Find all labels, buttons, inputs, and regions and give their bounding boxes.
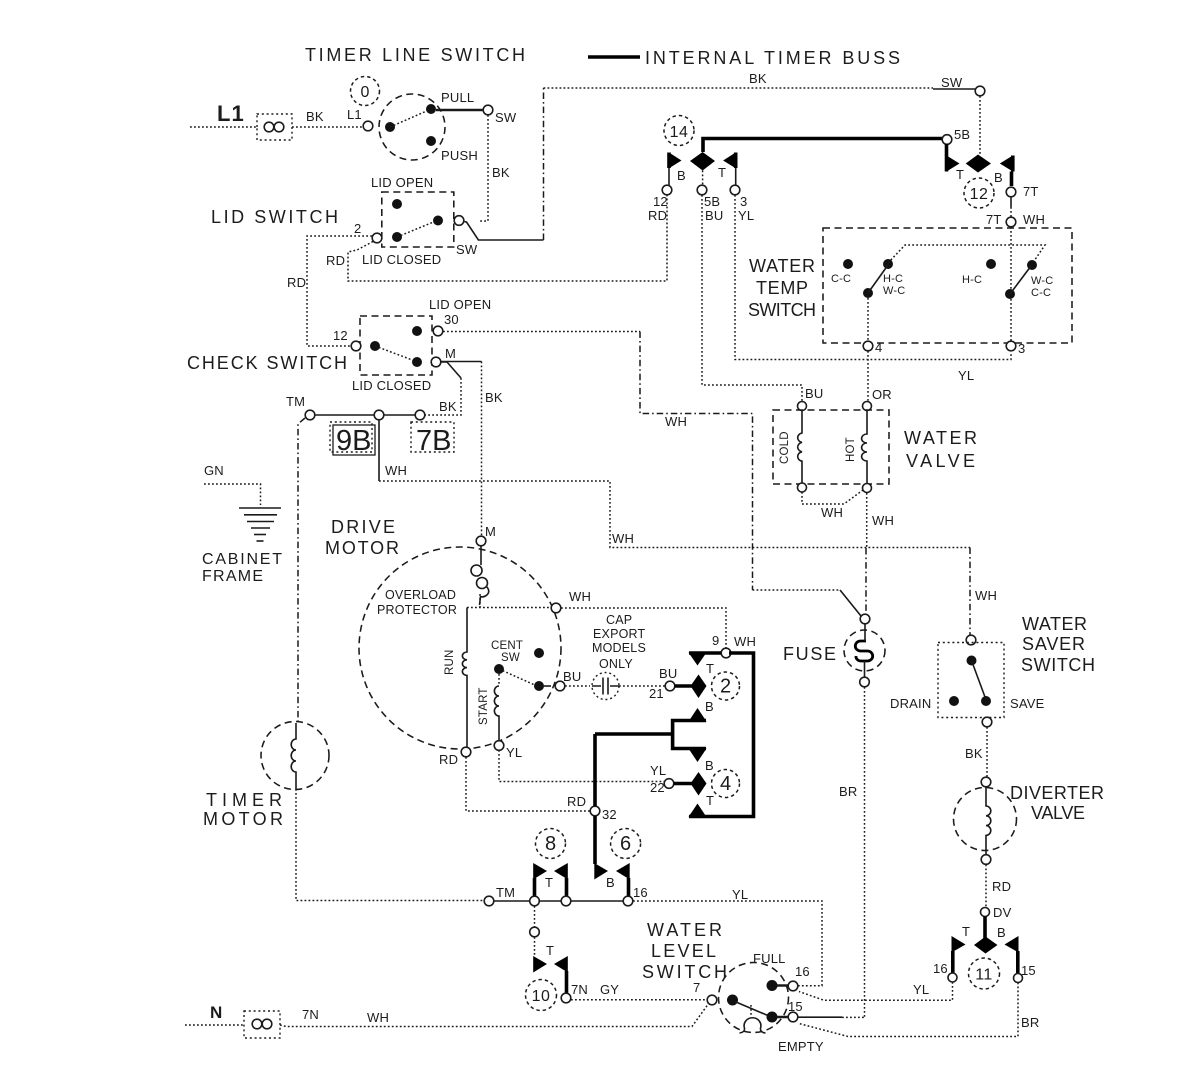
water saver switch outline — [938, 643, 1004, 718]
svg-text:WH: WH — [1023, 212, 1045, 227]
svg-text:SAVER: SAVER — [1022, 634, 1085, 654]
svg-text:SW: SW — [456, 242, 478, 257]
svg-text:W-C: W-C — [1031, 275, 1053, 287]
svg-text:B: B — [606, 875, 615, 890]
wire right pivot to terminal 3 — [1010, 299, 1012, 341]
svg-text:WH: WH — [821, 505, 843, 520]
cam 14 contact T triangle — [723, 153, 736, 169]
cam 2 diamond — [691, 675, 707, 699]
svg-text:WATER: WATER — [749, 256, 815, 276]
wire lower contact to BU node — [544, 685, 551, 687]
node cam11 16 — [948, 973, 957, 982]
svg-text:YL: YL — [506, 745, 522, 760]
wire BK bus riser — [543, 88, 545, 240]
svg-text:BU: BU — [563, 669, 581, 684]
svg-text:11: 11 — [975, 967, 993, 984]
wire 7T to connector — [1010, 197, 1012, 207]
timer motor outline — [261, 722, 329, 790]
node saver bottom — [982, 717, 992, 727]
svg-text:M: M — [445, 346, 456, 361]
contact lid open check — [412, 326, 422, 336]
water level switch outline — [719, 963, 789, 1033]
wire YL down to 22 — [499, 750, 664, 782]
svg-text:BK: BK — [439, 399, 457, 414]
svg-text:BR: BR — [1021, 1015, 1039, 1030]
drive motor outline — [359, 547, 561, 749]
wire capacitor to 21 — [619, 685, 665, 687]
wire cam8 right to 16 — [571, 900, 623, 902]
cam 11 diamond — [974, 937, 998, 954]
wire L1 lead — [190, 126, 257, 128]
svg-text:TM: TM — [496, 885, 515, 900]
node cam8 right — [561, 896, 571, 906]
coil HOT — [862, 411, 867, 484]
svg-text:YL: YL — [650, 763, 666, 778]
svg-text:YL: YL — [913, 982, 929, 997]
cam 11 contact B triangle — [1005, 936, 1019, 973]
svg-text:T: T — [718, 165, 726, 180]
svg-text:9B: 9B — [336, 425, 371, 457]
water valve outline — [773, 410, 889, 484]
svg-text:B: B — [705, 758, 714, 773]
svg-text:START: START — [478, 687, 490, 725]
svg-text:DIVERTER: DIVERTER — [1010, 783, 1104, 803]
wire overload to WH node — [467, 594, 551, 608]
wire junction to cam8 right node — [539, 900, 561, 902]
svg-text:GY: GY — [600, 982, 619, 997]
contact lid closed throw — [433, 216, 443, 226]
node terminal 16 — [623, 896, 633, 906]
WLS pressure dome — [740, 1018, 766, 1033]
node 7B — [415, 410, 425, 420]
cam 12 contact T triangle — [947, 156, 960, 172]
svg-text:LID CLOSED: LID CLOSED — [362, 252, 441, 267]
buss step cam2 B to cam4 B — [595, 721, 706, 749]
svg-text:FUSE: FUSE — [783, 644, 836, 664]
svg-text:7T: 7T — [1023, 184, 1039, 199]
svg-text:9: 9 — [712, 633, 719, 648]
svg-text:BK: BK — [306, 109, 324, 124]
svg-text:H-C: H-C — [883, 273, 903, 285]
temp switch left contact C-C — [843, 259, 853, 269]
svg-text:RD: RD — [648, 208, 667, 223]
wire BK down from SW to lid switch — [478, 115, 488, 221]
switch blade to PULL — [390, 110, 429, 127]
saver blade — [972, 661, 986, 698]
cam 11 contact T triangle — [952, 936, 966, 973]
wire SW down to cam 12 — [979, 96, 981, 155]
svg-text:N: N — [210, 1003, 223, 1022]
node terminal M — [431, 357, 441, 367]
diverter valve outline — [954, 788, 1017, 851]
svg-text:SW: SW — [501, 652, 520, 664]
node valve OR terminal — [863, 402, 872, 411]
svg-text:SW: SW — [941, 75, 963, 90]
node TM bottom — [484, 896, 494, 906]
contact SAVE — [981, 696, 991, 706]
svg-text:6: 6 — [620, 833, 631, 855]
node diverter bottom — [981, 855, 991, 865]
svg-text:L1: L1 — [217, 101, 245, 126]
lid switch outline — [382, 192, 454, 247]
svg-text:BK: BK — [965, 746, 983, 761]
wire left pivot to terminal 4 — [867, 298, 869, 341]
node motor BU terminal — [555, 681, 565, 691]
svg-text:WH: WH — [665, 414, 687, 429]
node SW — [483, 105, 493, 115]
node 7T — [1006, 187, 1016, 197]
connector box 9B — [330, 422, 375, 457]
node WLS pivot — [727, 995, 738, 1006]
timer cam circled 11 — [969, 958, 1000, 989]
cam 10 contact left triangle — [533, 956, 547, 973]
svg-text:WH: WH — [569, 589, 591, 604]
wire timer motor to TM node — [296, 789, 484, 901]
node junction cam8 left — [530, 896, 540, 906]
svg-text:C-C: C-C — [1031, 287, 1051, 299]
buss cam4 T loop to 9 — [689, 653, 754, 817]
node terminal 3 — [1006, 341, 1016, 351]
wire DV to cam 11 diamond — [983, 917, 987, 940]
svg-text:14: 14 — [670, 124, 689, 141]
svg-text:CHECK SWITCH: CHECK SWITCH — [187, 353, 347, 373]
node 5B right — [942, 135, 952, 145]
fuse outline — [844, 630, 885, 671]
svg-text:LID CLOSED: LID CLOSED — [352, 378, 431, 393]
overload protector heater — [480, 546, 482, 565]
wire lid SW to BK bus riser — [464, 222, 544, 241]
timer line switch outline — [379, 94, 445, 160]
svg-text:0: 0 — [361, 84, 370, 101]
wire EMPTY to 15 — [777, 1016, 788, 1019]
cam 12 diamond — [966, 155, 991, 173]
svg-text:EMPTY: EMPTY — [778, 1039, 824, 1054]
svg-text:C-C: C-C — [831, 273, 851, 285]
check switch outline — [360, 316, 432, 375]
cam 6 contact left triangle — [594, 863, 608, 880]
WLS pressure dome link — [750, 1005, 752, 1017]
svg-text:WH: WH — [734, 634, 756, 649]
svg-text:30: 30 — [444, 312, 459, 327]
svg-text:DRIVE: DRIVE — [331, 517, 395, 537]
svg-text:H-C: H-C — [962, 274, 982, 286]
svg-text:M: M — [485, 524, 496, 539]
svg-text:WH: WH — [975, 588, 997, 603]
wire FULL to 16 — [777, 984, 788, 987]
svg-text:LID OPEN: LID OPEN — [371, 175, 433, 190]
svg-text:B: B — [997, 925, 1006, 940]
node valve cold bottom — [798, 483, 807, 492]
wire TM to junction — [494, 900, 529, 902]
wire 16 YL to WLS full — [633, 901, 822, 986]
node switch common — [385, 122, 395, 132]
node SW lid — [454, 216, 464, 226]
node junction 9B — [374, 410, 384, 420]
wire net30 to fuse — [753, 589, 841, 591]
node terminal 21 — [665, 681, 675, 691]
svg-text:22: 22 — [650, 780, 665, 795]
contact lid open — [392, 199, 402, 209]
contact EMPTY — [767, 1012, 778, 1023]
timer cam circled 10 — [526, 980, 557, 1011]
svg-text:B: B — [994, 170, 1003, 185]
svg-text:T: T — [706, 793, 714, 808]
cam 6 contact right triangle — [616, 863, 630, 896]
node terminal 7N — [561, 993, 571, 1003]
svg-text:12: 12 — [333, 328, 348, 343]
svg-text:T: T — [545, 875, 553, 890]
svg-text:SWITCH: SWITCH — [748, 300, 816, 320]
svg-text:7N: 7N — [571, 982, 588, 997]
svg-text:SWITCH: SWITCH — [1021, 655, 1095, 675]
cam 12 buss stub — [945, 144, 949, 156]
svg-text:7B: 7B — [416, 425, 451, 457]
node check pivot — [370, 341, 380, 351]
cam 14 contact B triangle — [669, 153, 682, 169]
wire diverter RD down — [985, 865, 987, 908]
node valve hot bottom — [863, 484, 872, 493]
svg-text:COLD: COLD — [779, 431, 791, 464]
node terminal 2 — [372, 233, 382, 243]
node diverter top — [981, 777, 991, 787]
svg-text:T: T — [546, 943, 554, 958]
wire terminal 4 to OR node — [867, 351, 869, 401]
wire BK bus solid end — [933, 88, 975, 90]
wire WH bus down to saver — [969, 548, 971, 636]
node motor M terminal — [476, 536, 486, 546]
svg-text:MOTOR: MOTOR — [325, 538, 399, 558]
wire WH to bus — [379, 481, 970, 548]
timer cam circled 6 — [611, 829, 641, 859]
temp switch right blade — [1010, 266, 1031, 294]
svg-text:CAP: CAP — [606, 613, 632, 627]
svg-text:3: 3 — [1018, 341, 1025, 356]
timer cam circled 14 — [664, 116, 694, 146]
wire 21 to cam 2 diamond — [675, 684, 693, 688]
svg-text:15: 15 — [788, 999, 803, 1014]
svg-text:ONLY: ONLY — [599, 657, 633, 671]
svg-text:BU: BU — [705, 208, 723, 223]
node motor YL terminal — [494, 741, 504, 751]
node WLS 15 — [788, 1012, 798, 1022]
node DV — [981, 908, 990, 917]
coil START — [498, 674, 500, 686]
svg-text:16: 16 — [795, 964, 810, 979]
cam 2 T rail from 9 — [689, 651, 721, 655]
svg-text:BK: BK — [492, 165, 510, 180]
svg-text:12: 12 — [653, 194, 668, 209]
svg-text:PROTECTOR: PROTECTOR — [377, 603, 457, 617]
svg-text:T: T — [706, 661, 714, 676]
timer cam circled 8 — [536, 829, 566, 859]
svg-text:10: 10 — [532, 988, 551, 1005]
node terminal 22 — [664, 779, 674, 789]
wire junction to 7B — [384, 414, 415, 416]
wire 30 WH to fuse riser — [443, 331, 640, 333]
wire junction down — [534, 906, 536, 927]
svg-text:7N: 7N — [302, 1007, 319, 1022]
svg-text:W-C: W-C — [883, 285, 905, 297]
svg-text:T: T — [962, 924, 970, 939]
wire cam11 15 BR — [799, 983, 1018, 1037]
svg-text:FULL: FULL — [753, 951, 786, 966]
svg-text:T: T — [956, 167, 964, 182]
cam 8 contact left triangle — [533, 863, 547, 896]
svg-text:2: 2 — [354, 221, 361, 236]
node cam11 15 — [1014, 974, 1023, 983]
legend line internal timer buss — [588, 55, 640, 59]
cam 2 contact B triangle — [689, 708, 707, 722]
wire cold bottom to hot bottom — [802, 490, 863, 504]
water temp switch outline — [823, 228, 1072, 343]
timer cam circled 12 — [964, 178, 994, 208]
svg-text:WATER: WATER — [904, 428, 977, 448]
svg-text:12: 12 — [970, 186, 989, 203]
wire cam14 diamond to node 5B — [702, 171, 704, 186]
wire cam11 16 YL — [799, 982, 953, 1000]
wire WH to cam 9 — [561, 608, 726, 648]
wire GN — [204, 484, 261, 505]
timer cam circled 0 — [351, 77, 380, 106]
wire 7N GY to WLS 7 — [571, 999, 707, 1001]
contact lid closed check — [412, 357, 422, 367]
svg-text:RD: RD — [326, 253, 345, 268]
coil diverter — [986, 787, 991, 855]
wire N lead — [185, 1024, 244, 1026]
wire 3 YL down — [735, 195, 1011, 360]
svg-text:WATER: WATER — [647, 920, 722, 940]
node fuse bottom — [860, 677, 870, 687]
coil COLD — [798, 411, 802, 484]
fuse element — [855, 641, 872, 661]
node terminal 7 — [707, 995, 717, 1005]
contact cent sw upper — [534, 648, 544, 658]
wire valve WH down to fuse — [865, 548, 867, 614]
temp switch right pivot — [1005, 289, 1015, 299]
svg-text:GN: GN — [204, 463, 224, 478]
node blade pivot — [392, 232, 402, 242]
cam 4 contact B triangle — [689, 749, 707, 763]
svg-text:WH: WH — [612, 531, 634, 546]
node L1 terminal — [363, 121, 373, 131]
temp switch left contact H-C — [883, 259, 893, 269]
svg-text:B: B — [705, 699, 714, 714]
svg-text:CENT: CENT — [491, 640, 523, 652]
svg-text:2: 2 — [720, 676, 731, 698]
svg-text:MOTOR: MOTOR — [203, 809, 283, 829]
svg-text:TM: TM — [286, 394, 305, 409]
contact saver common — [967, 656, 977, 666]
svg-text:4: 4 — [720, 773, 731, 795]
node terminal 9 — [721, 648, 731, 658]
svg-text:5B: 5B — [704, 194, 720, 209]
node terminal 3 — [730, 185, 740, 195]
check switch blade — [375, 346, 415, 361]
svg-text:WH: WH — [385, 463, 407, 478]
svg-text:7T: 7T — [986, 212, 1002, 227]
svg-text:3: 3 — [740, 194, 747, 209]
node terminal 12 check — [351, 341, 361, 351]
wire fuse BR down — [864, 687, 866, 1018]
svg-text:DRAIN: DRAIN — [890, 696, 931, 711]
wire saver BK down — [986, 727, 988, 777]
wire cam14 T to node 3 — [735, 168, 737, 185]
svg-text:WH: WH — [367, 1010, 389, 1025]
svg-text:LID OPEN: LID OPEN — [429, 297, 491, 312]
temp switch left blade — [868, 265, 888, 293]
svg-text:FRAME: FRAME — [202, 568, 263, 585]
svg-text:RD: RD — [567, 794, 586, 809]
svg-text:BK: BK — [749, 71, 767, 86]
wire BK bus top — [544, 87, 934, 89]
timer cam circled 4 — [712, 770, 740, 798]
node motor RD terminal — [461, 747, 471, 757]
buss 32 down to cam 6 — [593, 816, 597, 864]
svg-text:B: B — [677, 168, 686, 183]
cam 12 contact B triangle — [1000, 156, 1013, 172]
ground cabinet frame — [239, 508, 281, 541]
wire WLS 15 to fuse BR — [798, 1016, 842, 1018]
svg-text:BU: BU — [805, 386, 823, 401]
svg-text:5B: 5B — [954, 127, 970, 142]
temp switch left pivot — [863, 288, 873, 298]
node terminal 32 — [590, 806, 600, 816]
svg-text:VALVE: VALVE — [1031, 803, 1085, 823]
svg-text:SAVE: SAVE — [1010, 696, 1045, 711]
svg-text:RD: RD — [992, 879, 1011, 894]
temp switch right contact H-C — [986, 259, 996, 269]
wire BK riser to motor M — [481, 362, 483, 537]
cam 4 diamond — [691, 772, 707, 796]
svg-text:PUSH: PUSH — [441, 148, 478, 163]
coil RUN — [462, 608, 467, 748]
node cent sw pivot — [494, 664, 504, 674]
cent sw blade — [499, 669, 537, 686]
node fuse top — [860, 614, 870, 624]
lid switch blade — [397, 221, 436, 237]
svg-text:BU: BU — [659, 666, 677, 681]
wire junction WH down — [378, 420, 380, 481]
svg-text:RD: RD — [287, 275, 306, 290]
wire fuse internal top — [864, 623, 867, 678]
svg-text:LEVEL: LEVEL — [651, 941, 716, 961]
wire cam14 B to node 12 — [668, 168, 670, 185]
wire M to BK riser — [441, 362, 461, 378]
wire RD down to 32 — [466, 757, 590, 811]
cam 8 contact right triangle — [554, 863, 568, 896]
svg-text:BK: BK — [485, 390, 503, 405]
internal timer buss top — [703, 139, 943, 153]
svg-text:16: 16 — [633, 885, 648, 900]
wire diagonal into fuse — [840, 590, 861, 616]
svg-text:YL: YL — [958, 368, 974, 383]
node TM top — [305, 410, 315, 420]
svg-text:4: 4 — [875, 340, 882, 355]
connector box 7B — [411, 422, 454, 457]
svg-text:MODELS: MODELS — [592, 641, 646, 655]
temp switch right contact W-C — [1027, 260, 1037, 270]
buss 32 riser — [593, 734, 597, 806]
WLS blade — [736, 1002, 769, 1016]
svg-text:32: 32 — [602, 807, 617, 822]
svg-text:RUN: RUN — [444, 649, 456, 675]
svg-text:EXPORT: EXPORT — [593, 627, 646, 641]
contact cent sw lower — [534, 681, 544, 691]
node terminal 5B — [697, 185, 707, 195]
node motor WH — [551, 603, 561, 613]
svg-text:BR: BR — [839, 784, 857, 799]
contact FULL — [767, 980, 778, 991]
